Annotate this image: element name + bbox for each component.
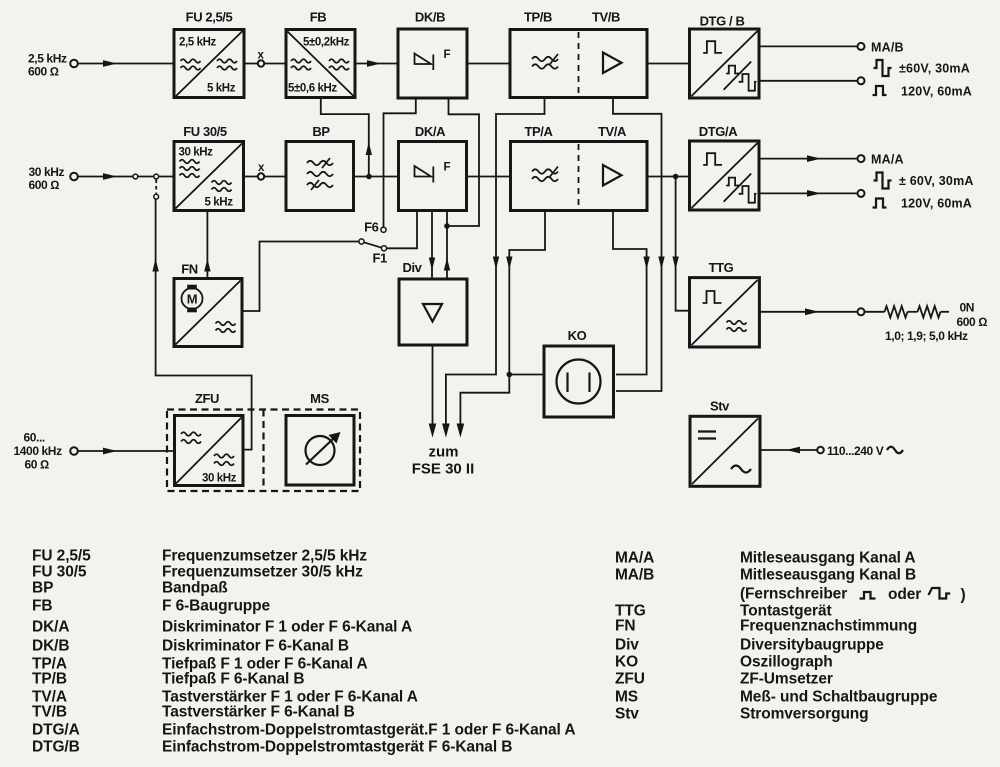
svg-text:30 kHz: 30 kHz <box>29 165 65 179</box>
svg-text:60...: 60... <box>24 431 45 445</box>
svg-text:TP/B: TP/B <box>524 10 552 25</box>
arrow: DTG/A to MA/A <box>807 155 821 162</box>
junction: monitor branch after TV/A <box>673 174 679 180</box>
svg-text:TV/B: TV/B <box>32 704 67 721</box>
wire: channel A tap down to TTG input <box>676 177 690 311</box>
arrow: FB to DK/B <box>367 60 381 67</box>
svg-text:MA/B: MA/B <box>615 567 654 584</box>
svg-text:Div: Div <box>615 637 639 654</box>
arrow: down on TV/A branch <box>643 257 649 270</box>
svg-text:Einfachstrom-Doppelstromtastge: Einfachstrom-Doppelstromtastgerät.F 1 od… <box>162 722 575 739</box>
power supply Stv <box>690 399 760 487</box>
node: plug connector on 30 kHz line <box>133 174 138 179</box>
svg-text:KO: KO <box>568 328 587 343</box>
arrow: DTG/A telegraph output <box>807 190 821 197</box>
wire: TP/A bottom branch down to KO input and FSE output <box>460 211 545 425</box>
arrow: up from Div to DK/A <box>444 258 450 271</box>
arrow: signal direction into FU 30/5 <box>103 173 117 180</box>
svg-text:Meß- und Schaltbaugruppe: Meß- und Schaltbaugruppe <box>740 689 938 706</box>
arrow: up from ZFU to 30 kHz line <box>152 259 158 272</box>
svg-text:F 6-Baugruppe: F 6-Baugruppe <box>162 598 271 615</box>
svg-text:2,5 kHz: 2,5 kHz <box>28 52 67 66</box>
node MA/B output terminal <box>858 41 904 55</box>
value label: double-current waveform +-60V, 30mA (channel A) <box>874 173 974 189</box>
svg-text:TTG: TTG <box>709 260 734 275</box>
bandpass BP <box>286 124 354 211</box>
node F1: switch contact <box>381 246 386 251</box>
svg-text:Oszillograph: Oszillograph <box>740 654 833 671</box>
svg-text:600 Ω: 600 Ω <box>29 178 60 192</box>
svg-text:110...240 V: 110...240 V <box>827 444 884 458</box>
svg-text:MS: MS <box>310 391 329 406</box>
svg-text:120V, 60mA: 120V, 60mA <box>901 85 972 99</box>
wire: mains input to Stv <box>760 449 817 451</box>
svg-text:0N: 0N <box>960 301 975 315</box>
wire: BP to DK/A <box>354 176 399 178</box>
arrow: down into Div <box>429 258 435 271</box>
wire: TTG output <box>759 311 857 313</box>
value label: 0N 600 Ohm <box>957 301 988 329</box>
diversity unit Div <box>399 260 467 345</box>
value label: double-current waveform +-60V, 30mA <box>874 60 970 76</box>
node: plug connector to ZFU branch <box>154 174 159 179</box>
svg-text:FU 2,5/5: FU 2,5/5 <box>32 548 91 565</box>
svg-text:DTG / B: DTG / B <box>700 14 745 29</box>
svg-text:Frequenzumsetzer 30/5 kHz: Frequenzumsetzer 30/5 kHz <box>162 564 363 581</box>
junction: KO input tap <box>507 372 513 378</box>
wire: junction to KO left input <box>509 374 544 376</box>
arrow: FSE output 2 <box>442 424 450 438</box>
svg-text:120V, 60mA: 120V, 60mA <box>901 197 972 211</box>
arrow: TTG output direction <box>805 308 819 315</box>
svg-text:DTG/A: DTG/A <box>699 124 738 139</box>
wire: FN to FU 30/5 (frequency control) <box>206 211 208 279</box>
filter TP/B and amplifier TV/B <box>510 10 647 98</box>
svg-text:Frequenznachstimmung: Frequenznachstimmung <box>740 618 917 635</box>
node x: FU 30/5 output test point <box>244 162 287 180</box>
svg-text:M: M <box>187 292 197 307</box>
svg-text:DK/A: DK/A <box>32 619 70 636</box>
arrow: down on TP/B branch <box>493 257 499 270</box>
arrow: down on TP/A branch <box>506 257 512 270</box>
svg-text:Bandpaß: Bandpaß <box>162 580 228 597</box>
svg-text:MA/B: MA/B <box>871 41 904 55</box>
arrow: FSE output 1 <box>429 424 437 438</box>
wire: FB feed from 30 kHz line (up) <box>321 98 369 177</box>
node: ZFU branch connector <box>154 194 159 199</box>
housing: dashed enclosure around ZFU and MS <box>167 410 360 492</box>
svg-text:F6: F6 <box>364 220 379 235</box>
junction: DK/B line meets Div return <box>444 223 450 229</box>
svg-text:1,0; 1,9; 5,0 kHz: 1,0; 1,9; 5,0 kHz <box>885 329 968 343</box>
node x: FU 2,5/5 output test point <box>244 50 286 67</box>
wire: DTG/B to MA/B terminal <box>759 45 858 47</box>
label: zum FSE 30 II <box>412 444 475 478</box>
discriminator DK/B <box>398 10 467 99</box>
svg-text:KO: KO <box>615 654 638 671</box>
wire: DK/B bottom-left to switch contact F6 <box>384 98 416 227</box>
housing divider between ZFU and MS <box>262 410 264 492</box>
node: 2,5 kHz 600 Ohm input terminal <box>28 52 78 79</box>
wire: DK/A bottom-left to switch contact F1 <box>387 211 417 249</box>
arrow: signal direction into FU 2,5/5 <box>103 60 117 67</box>
resistor: termination 600 Ohm (zigzag pair) <box>865 306 950 317</box>
switch blade F1/F6 <box>364 242 382 247</box>
svg-text:Mitleseausgang Kanal A: Mitleseausgang Kanal A <box>740 550 916 567</box>
svg-text:Div: Div <box>402 260 422 275</box>
svg-text:Stv: Stv <box>710 399 730 414</box>
wire: DTG/A to MA/A terminal <box>759 158 858 160</box>
filter group FB <box>286 10 355 98</box>
svg-text:FB: FB <box>32 598 52 615</box>
wire: ZFU output up to 30 kHz line plug <box>156 199 252 450</box>
keyer DTG/B <box>690 14 760 99</box>
wire: DK/B bottom-right down to junction above Div <box>449 98 480 226</box>
converter FU 2,5/5 <box>174 10 244 98</box>
regulator FN <box>174 262 242 347</box>
svg-text:DK/A: DK/A <box>415 124 446 139</box>
svg-text:± 60V, 30mA: ± 60V, 30mA <box>899 174 974 188</box>
oscillograph KO <box>544 328 614 417</box>
arrow: mains into Stv <box>786 447 800 454</box>
svg-text:ZFU: ZFU <box>195 391 219 406</box>
svg-text:TV/A: TV/A <box>598 124 627 139</box>
svg-text:Frequenzumsetzer 2,5/5 kHz: Frequenzumsetzer 2,5/5 kHz <box>162 548 367 565</box>
svg-text:MS: MS <box>615 689 638 706</box>
svg-text:2,5 kHz: 2,5 kHz <box>179 37 216 49</box>
wire: DK/A to TP/A <box>467 176 511 178</box>
svg-text:Tiefpaß F 6-Kanal B: Tiefpaß F 6-Kanal B <box>162 671 305 688</box>
arrow: into ZFU <box>103 448 117 455</box>
svg-text:BP: BP <box>312 124 330 139</box>
svg-text:F: F <box>444 49 451 61</box>
node: 60...1400 kHz 60 Ohm input terminal <box>14 431 78 472</box>
wire: TP/B bottom branch down to FSE output <box>446 98 545 425</box>
measuring/switch unit MS <box>286 391 354 485</box>
wire: FN output to switch pivot <box>242 242 359 312</box>
switch pivot node <box>359 239 364 244</box>
svg-text:oder: oder <box>888 586 921 603</box>
converter ZFU <box>175 391 244 486</box>
svg-text:TP/B: TP/B <box>32 671 67 688</box>
svg-text:DK/B: DK/B <box>32 638 70 655</box>
svg-text:30 kHz: 30 kHz <box>179 147 214 159</box>
svg-text:600 Ω: 600 Ω <box>957 315 988 329</box>
svg-text:30 kHz: 30 kHz <box>202 473 237 485</box>
node: mains input terminal <box>817 447 824 454</box>
wire: input to ZFU <box>78 450 174 452</box>
filter TP/A and amplifier TV/A <box>511 124 648 211</box>
node: TTG output terminal <box>858 308 865 315</box>
svg-text:Stromversorgung: Stromversorgung <box>740 706 869 723</box>
wire: input to FU 30/5 <box>78 176 174 178</box>
svg-text:FU 30/5: FU 30/5 <box>183 124 227 139</box>
node: DTG/B telegraph output terminal <box>858 77 865 84</box>
wire: Div output down to FSE 30 II <box>432 345 434 425</box>
svg-text:FSE 30 II: FSE 30 II <box>412 461 475 478</box>
svg-text:Diskriminator F 1 oder F 6-Ka: Diskriminator F 1 oder F 6-Kanal A <box>162 619 412 636</box>
node: 30 kHz 600 Ohm input terminal <box>29 165 78 192</box>
svg-text:5 kHz: 5 kHz <box>207 83 236 95</box>
svg-text:FU 2,5/5: FU 2,5/5 <box>186 10 233 25</box>
svg-text:5±0,2kHz: 5±0,2kHz <box>303 37 350 49</box>
wire: DK/B to TP/B <box>467 63 510 65</box>
svg-text:Mitleseausgang Kanal B: Mitleseausgang Kanal B <box>740 567 916 584</box>
node: DTG/A telegraph output terminal <box>858 190 865 197</box>
svg-text:5 kHz: 5 kHz <box>205 197 234 209</box>
converter FU 30/5 <box>174 124 244 211</box>
svg-text:±60V, 30mA: ±60V, 30mA <box>899 62 970 76</box>
svg-text:FN: FN <box>181 262 198 277</box>
wire: TV/B bottom branch down to KO <box>613 98 662 392</box>
wire: DTG/B telegraph output <box>759 80 858 82</box>
svg-text:MA/A: MA/A <box>871 153 904 167</box>
node F6: switch contact <box>381 227 386 232</box>
arrow: feed up into FB <box>366 142 372 155</box>
svg-text:600 Ω: 600 Ω <box>28 65 59 79</box>
legend: abbreviation list right column <box>615 550 938 723</box>
svg-text:): ) <box>961 587 966 604</box>
svg-text:1400 kHz: 1400 kHz <box>14 444 63 458</box>
svg-text:FB: FB <box>310 10 327 25</box>
value label: single-current waveform 120V, 60mA (channel A) <box>873 197 973 211</box>
node MA/A output terminal <box>858 153 904 167</box>
svg-text:Diversitybaugruppe: Diversitybaugruppe <box>740 637 884 654</box>
svg-text:FN: FN <box>615 618 635 635</box>
svg-text:BP: BP <box>32 580 53 597</box>
svg-text:60 Ω: 60 Ω <box>25 458 49 472</box>
svg-text:(Fernschreiber: (Fernschreiber <box>740 586 847 603</box>
value label: single-current waveform 120V, 60mA <box>873 85 973 99</box>
value label: 110...240 V ~ <box>827 444 903 458</box>
discriminator DK/A <box>399 124 467 211</box>
svg-text:Stv: Stv <box>615 706 639 723</box>
svg-text:TP/A: TP/A <box>524 124 553 139</box>
svg-text:x: x <box>258 162 265 174</box>
wire: Div return to DK/A with junction from DK/B <box>446 211 448 279</box>
legend: Fernschreiber waveform glyphs and closing paren <box>860 586 966 604</box>
tone keyer TTG <box>690 260 760 347</box>
svg-text:Einfachstrom-Doppelstromtastge: Einfachstrom-Doppelstromtastgerät F 6-Ka… <box>162 739 512 756</box>
arrow: down on TTG feed <box>672 257 678 270</box>
svg-text:F1: F1 <box>373 251 388 266</box>
wire: dashed plug link to ZFU branch <box>155 180 157 194</box>
arrow: FSE output 3 <box>457 424 465 438</box>
svg-text:DK/B: DK/B <box>415 10 445 25</box>
svg-text:F: F <box>444 162 451 174</box>
svg-text:5±0,6 kHz: 5±0,6 kHz <box>288 83 337 95</box>
wire: input to FU 2,5/5 <box>78 63 174 65</box>
wire: DTG/A telegraph output <box>759 192 858 194</box>
svg-text:ZF-Umsetzer: ZF-Umsetzer <box>740 671 833 688</box>
svg-text:Diskriminator F 6-Kanal B: Diskriminator F 6-Kanal B <box>162 638 349 655</box>
wire: FB to DK/B <box>355 63 398 65</box>
arrow: up from FN to FU 30/5 <box>204 259 210 272</box>
wire: TV/B to DTG/B <box>647 63 690 65</box>
keyer DTG/A <box>690 124 760 210</box>
svg-text:Tastverstärker F 6-Kanal B: Tastverstärker F 6-Kanal B <box>162 704 355 721</box>
wire: TV/A bottom branch down to KO right upper <box>613 211 647 375</box>
svg-text:DTG/A: DTG/A <box>32 722 80 739</box>
svg-text:FU 30/5: FU 30/5 <box>32 564 87 581</box>
wire: DK/A bottom to Div input <box>431 211 433 279</box>
wire: TV/A to DTG/A <box>647 176 690 178</box>
arrow: down on TV/B branch <box>658 257 664 270</box>
junction: FB branch joins 30 kHz line <box>366 174 372 180</box>
legend: abbreviation list left column <box>32 548 575 756</box>
svg-text:zum: zum <box>429 444 459 461</box>
svg-text:DTG/B: DTG/B <box>32 739 80 756</box>
svg-text:TV/B: TV/B <box>592 10 620 25</box>
svg-text:ZFU: ZFU <box>615 671 645 688</box>
svg-text:MA/A: MA/A <box>615 550 654 567</box>
